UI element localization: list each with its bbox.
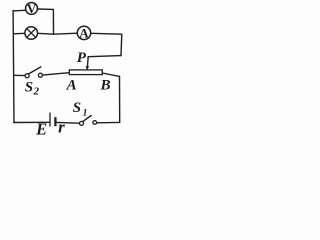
svg-text:B: B — [100, 78, 111, 94]
wire S1 to bottom right corner — [97, 121, 120, 123]
svg-text:P: P — [77, 50, 87, 66]
wire top to voltmeter — [13, 9, 26, 12]
rheostat slider arrowhead — [86, 66, 90, 70]
wire lamp to ammeter — [38, 33, 78, 34]
rheostat R box — [69, 70, 102, 75]
voltmeter U=V circle — [26, 2, 38, 14]
wire voltmeter right down to lamp row — [38, 9, 54, 34]
battery E short plate — [54, 117, 56, 126]
svg-text:r: r — [58, 118, 65, 137]
svg-text:V: V — [27, 1, 37, 16]
lamp L — [25, 27, 38, 40]
wire bottom left to battery — [14, 121, 50, 123]
switch S2 left circle — [25, 74, 29, 78]
wire S2 left stub — [14, 74, 25, 76]
svg-text:1: 1 — [83, 109, 88, 119]
svg-text:E: E — [35, 119, 47, 137]
svg-text:S: S — [25, 79, 33, 95]
wire P horizontal — [88, 56, 121, 57]
switch S2 right circle — [38, 73, 42, 77]
switch S1 lever — [83, 116, 92, 122]
wire ammeter right and down — [91, 33, 122, 55]
wire battery to S1 — [57, 121, 80, 124]
wire B to right vertical — [102, 73, 119, 76]
svg-text:A: A — [79, 25, 89, 40]
switch S2 lever — [29, 67, 41, 74]
wire left vertical — [12, 11, 15, 123]
battery E long plate — [49, 113, 51, 127]
switch S1 left circle — [80, 121, 84, 125]
svg-text:2: 2 — [33, 85, 40, 97]
ammeter A circle — [77, 26, 90, 39]
wire rheostat slider stub — [86, 57, 89, 67]
wire middle A-wire — [42, 73, 69, 75]
switch S1 right circle — [93, 121, 97, 125]
svg-text:A: A — [66, 78, 77, 94]
wire lamp row left stub — [13, 32, 25, 35]
svg-text:S: S — [73, 100, 81, 116]
wire right vertical bottom — [119, 76, 121, 122]
